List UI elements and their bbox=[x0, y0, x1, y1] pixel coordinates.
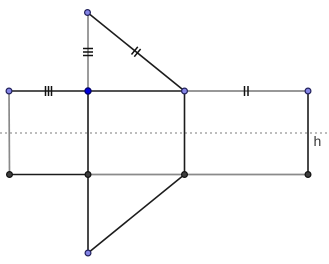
svg-text:h: h bbox=[314, 133, 322, 149]
